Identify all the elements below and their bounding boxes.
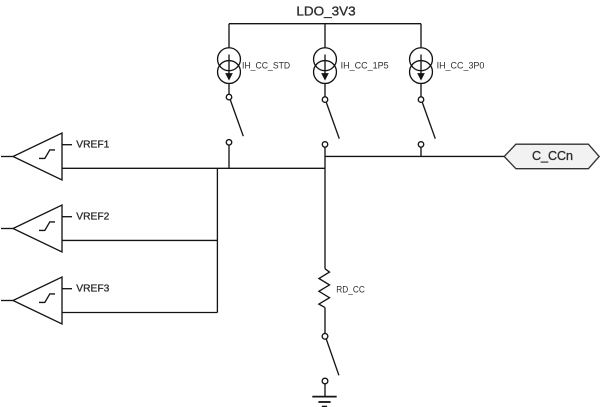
wire SW2 down to resistor (324, 147, 326, 269)
svg-text:VREF3: VREF3 (76, 283, 109, 295)
wire comparator bus horizontal (62, 167, 325, 169)
wire resistor to switch SW4 (324, 308, 326, 334)
resistor RD_CC (319, 269, 330, 308)
svg-text:LDO_3V3: LDO_3V3 (296, 4, 355, 19)
wire SW4 to ground (324, 384, 326, 396)
svg-text:RD_CC: RD_CC (336, 284, 365, 294)
switch SW1 (226, 94, 243, 145)
switch SW2 (322, 97, 339, 147)
wire I3 to switch SW3 (420, 84, 422, 97)
svg-text:IH_CC_STD: IH_CC_STD (242, 61, 291, 71)
wire comparator3 output (62, 312, 217, 314)
svg-text:C_CCn: C_CCn (532, 148, 573, 163)
switch SW4 (322, 333, 339, 383)
current source IH_CC_3P0 (410, 48, 433, 84)
wire SW1 to node (228, 145, 230, 168)
wire to C_CCn (325, 155, 505, 157)
wire rail drop to I1 (228, 24, 230, 48)
wire rail drop to I2 (324, 24, 326, 48)
current source IH_CC_STD (218, 48, 241, 84)
wire I1 to switch SW1 (228, 84, 230, 95)
switch SW3 (418, 97, 435, 147)
wire I2 to switch SW2 (324, 84, 326, 97)
svg-text:VREF2: VREF2 (76, 211, 109, 223)
svg-text:VREF1: VREF1 (76, 139, 109, 151)
off-page connector C_CCn (504, 144, 599, 169)
comparator U2 (1, 205, 72, 252)
wire LDO_3V3 rail (229, 23, 421, 25)
svg-text:IH_CC_1P5: IH_CC_1P5 (341, 61, 389, 71)
comparator U1 (1, 133, 72, 180)
svg-text:IH_CC_3P0: IH_CC_3P0 (437, 61, 485, 71)
current source IH_CC_1P5 (314, 48, 337, 84)
wire comparator2 output (62, 239, 217, 241)
wire rail drop to I3 (420, 24, 422, 48)
comparator U3 (1, 277, 72, 324)
wire vertical bus to comparators (216, 168, 218, 312)
ground (312, 397, 336, 407)
wire SW3 to C_CCn line (420, 147, 422, 156)
